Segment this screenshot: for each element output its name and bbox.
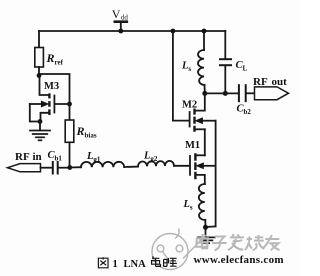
node drain net dot — [202, 91, 207, 96]
transistor M3 — [30, 93, 70, 121]
port RF out connector — [255, 87, 289, 100]
node rail M2 gate dot — [171, 29, 176, 34]
node CL bottom dot — [223, 91, 228, 96]
wire Ls to node — [204, 85, 206, 94]
wire M2 body down — [215, 121, 217, 227]
svg-text:1: 1 — [113, 259, 118, 270]
port RF in connector — [8, 164, 41, 172]
wire M2 gate to rail — [173, 31, 189, 121]
wire gate feed horizontal — [39, 74, 70, 103]
resistor Rref — [35, 48, 44, 68]
svg-text:Ls: Ls — [181, 61, 191, 74]
inductor Lg1 — [81, 162, 124, 167]
wire Rbias bottom — [69, 142, 71, 167]
svg-text:LNA: LNA — [124, 259, 147, 270]
inductor Ls top — [198, 50, 205, 85]
watermark logo circle — [152, 229, 206, 270]
capacitor CL — [220, 58, 231, 60]
wire CL bottom — [224, 66, 226, 94]
svg-text:Lg2: Lg2 — [143, 151, 158, 164]
svg-text:www.elecfans.com: www.elecfans.com — [194, 254, 284, 266]
wire drain net to Cb2 — [205, 92, 238, 94]
resistor Rbias — [65, 120, 74, 142]
svg-text:Rbias: Rbias — [76, 124, 97, 140]
inductor Ls bottom — [199, 184, 205, 220]
node M3 source dot — [38, 119, 43, 124]
wire M2 source to M1 drain — [204, 129, 206, 155]
wire node to Lg1 — [70, 166, 81, 168]
svg-text:RF: RF — [15, 151, 30, 163]
svg-text:Cb2: Cb2 — [237, 104, 252, 117]
wire gate node to Rbias — [69, 104, 71, 120]
node RF line bias dot — [67, 165, 72, 170]
svg-text:M3: M3 — [44, 81, 59, 92]
svg-text:Vdd: Vdd — [112, 7, 129, 22]
transistor M1 — [190, 153, 216, 184]
Vdd terminal bar — [115, 20, 127, 23]
svg-text:Rref: Rref — [46, 51, 64, 67]
wire Lg2 to M1 gate — [174, 165, 189, 167]
svg-text:M1: M1 — [185, 140, 200, 151]
ground left — [30, 131, 50, 141]
wire Vdd top rail — [39, 30, 225, 32]
node Vdd rail dot — [118, 29, 123, 34]
wire body line corner to source node — [206, 225, 216, 228]
svg-text:out: out — [272, 76, 288, 88]
wire left drop to Rref — [38, 31, 40, 48]
svg-text:Ls: Ls — [183, 199, 193, 212]
wire rail to Ls top — [203, 31, 205, 50]
svg-text:RF: RF — [253, 76, 268, 88]
watermark text dianzifashaoyou — [196, 234, 281, 250]
wire Rref bottom — [38, 67, 40, 76]
svg-text:Cb1: Cb1 — [48, 150, 63, 163]
node rail Ls dot — [202, 29, 207, 34]
node source dot — [203, 225, 208, 230]
wire RF in to Cb1 — [41, 167, 52, 169]
wire source to ground — [205, 227, 207, 236]
svg-text:CL: CL — [236, 60, 248, 73]
wire Vdd stub — [120, 22, 122, 31]
capacitor Cb1 — [52, 162, 54, 174]
svg-text:Lg1: Lg1 — [86, 151, 101, 164]
svg-text:in: in — [33, 151, 42, 163]
capacitor Cb2 — [238, 85, 240, 101]
wire Cb2 to RF out — [247, 92, 255, 94]
wire Lg1 to Lg2 — [124, 166, 138, 168]
transistor M2 — [190, 93, 216, 131]
node M3 drain-gate dot — [67, 102, 72, 107]
wire M3 source to ground — [39, 122, 41, 130]
wire M3 drain — [40, 76, 49, 96]
wire rail corner to CL — [224, 31, 226, 59]
caption 图 1 LNA 电路图 — [98, 256, 176, 270]
wire Cb1 to node — [59, 167, 70, 169]
node Rref-M3 dot — [37, 73, 42, 78]
ground bottom — [198, 237, 215, 243]
inductor Lg2 — [138, 161, 174, 167]
wire Ls bottom to source node — [204, 220, 206, 227]
svg-text:M2: M2 — [182, 100, 197, 111]
